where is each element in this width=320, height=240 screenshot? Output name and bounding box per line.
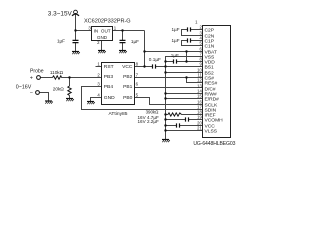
svg-text:RES#: RES# xyxy=(205,80,218,86)
svg-text:PB4: PB4 xyxy=(104,84,114,90)
svg-text:3: 3 xyxy=(88,25,91,30)
svg-text:−: − xyxy=(30,91,33,97)
svg-text:+: + xyxy=(30,76,33,82)
svg-text:5: 5 xyxy=(136,92,139,97)
svg-text:0.1µF: 0.1µF xyxy=(149,57,161,62)
svg-text:VLSS: VLSS xyxy=(205,128,218,134)
svg-text:1: 1 xyxy=(97,61,100,66)
svg-text:PB1: PB1 xyxy=(123,84,133,90)
svg-text:VCC: VCC xyxy=(122,64,133,70)
svg-text:E/RD#: E/RD# xyxy=(205,96,220,102)
svg-text:19: 19 xyxy=(197,114,202,119)
svg-text:21: 21 xyxy=(197,125,202,130)
svg-text:OUT: OUT xyxy=(101,28,111,33)
svg-text:3: 3 xyxy=(97,81,100,86)
svg-text:12: 12 xyxy=(197,77,202,82)
svg-text:RST: RST xyxy=(104,64,114,70)
svg-text:Probe: Probe xyxy=(30,69,44,75)
svg-text:1µF: 1µF xyxy=(57,38,65,43)
svg-text:PB3: PB3 xyxy=(104,74,114,80)
svg-text:GND: GND xyxy=(104,95,115,101)
svg-text:1µF: 1µF xyxy=(131,39,139,44)
svg-text:1: 1 xyxy=(114,25,117,30)
svg-text:BS1: BS1 xyxy=(205,64,215,70)
svg-text:0~16V: 0~16V xyxy=(16,84,32,90)
svg-text:6: 6 xyxy=(136,81,139,86)
svg-text:1µF: 1µF xyxy=(172,38,180,43)
svg-text:2: 2 xyxy=(97,72,100,77)
svg-text:110kΩ: 110kΩ xyxy=(50,70,64,75)
svg-text:15: 15 xyxy=(197,93,202,98)
svg-text:4: 4 xyxy=(97,92,100,97)
svg-text:7: 7 xyxy=(136,72,139,77)
svg-text:PB0: PB0 xyxy=(123,95,133,101)
svg-text:20kΩ: 20kΩ xyxy=(53,86,65,91)
svg-text:IN: IN xyxy=(94,28,99,33)
svg-text:PB2: PB2 xyxy=(123,74,133,80)
svg-text:3.3~15V: 3.3~15V xyxy=(48,11,73,18)
svg-text:16V 2.2µF: 16V 2.2µF xyxy=(138,119,159,124)
svg-text:1: 1 xyxy=(195,19,198,24)
svg-text:8: 8 xyxy=(136,61,139,66)
svg-text:XC6202P332PR-G: XC6202P332PR-G xyxy=(84,19,131,25)
svg-text:VCOMH: VCOMH xyxy=(205,117,224,123)
svg-text:ATtiny85: ATtiny85 xyxy=(109,111,128,117)
svg-text:C2P: C2P xyxy=(205,27,215,33)
svg-text:C1N: C1N xyxy=(205,43,215,49)
svg-text:1µF: 1µF xyxy=(171,53,179,58)
svg-text:UG-6448HLBEG03: UG-6448HLBEG03 xyxy=(193,141,235,147)
svg-text:1µF: 1µF xyxy=(172,27,180,32)
